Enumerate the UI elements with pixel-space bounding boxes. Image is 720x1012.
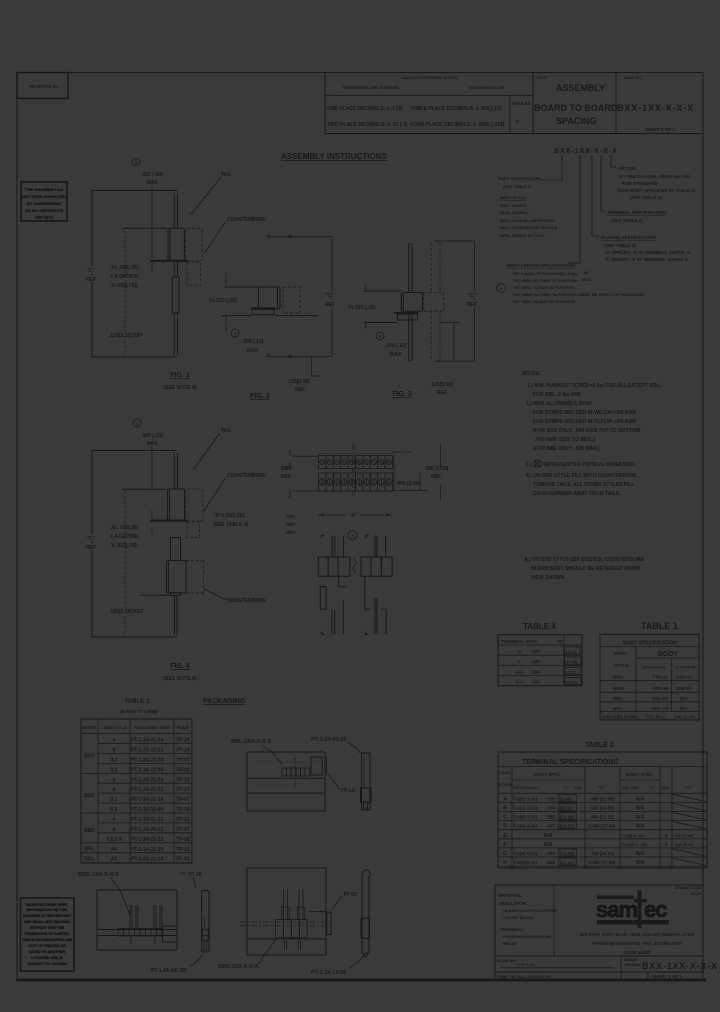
svg-text:MANUFACTURER SPEC: MANUFACTURER SPEC <box>26 903 68 907</box>
svg-text:THIS IS AN UNCONTROLLED: THIS IS AN UNCONTROLLED <box>22 938 72 942</box>
svg-text:REF: REF <box>431 474 441 480</box>
svg-text:'A'= TAILS FLUSH, LEAVE BLANK: 'A'= TAILS FLUSH, LEAVE BLANK <box>618 174 691 179</box>
svg-text:C: C <box>503 815 507 821</box>
svg-text:SAVED TO ANOTHER: SAVED TO ANOTHER <box>29 950 66 954</box>
svg-text:TP-12: TP-12 <box>341 788 355 794</box>
svg-text:PT-1-24-22-24: PT-1-24-22-24 <box>131 757 163 763</box>
svg-text:STYLE: STYLE <box>614 663 629 668</box>
svg-text:BODY SPEC.: BODY SPEC. <box>626 772 654 777</box>
svg-text:4: 4 <box>113 738 116 744</box>
svg-text:.440: .440 <box>531 659 540 664</box>
svg-text:BDL-: BDL- <box>613 706 624 711</box>
svg-text:"XX"=BDL: 02-MAX 36 POSITION: "XX"=BDL: 02-MAX 36 POSITION <box>512 299 575 304</box>
svg-text:T-2(R)6-X .055: T-2(R)6-X .055 <box>621 842 648 847</box>
svg-text:CODE 55322: CODE 55322 <box>624 950 651 955</box>
svg-text:.125[3.18]: .125[3.18] <box>287 379 310 385</box>
svg-text:BSL= SINGLE/LOW PROFILE: BSL= SINGLE/LOW PROFILE <box>500 218 556 223</box>
svg-text:BXX-1XX-X-X-X: BXX-1XX-X-X-X <box>642 961 718 971</box>
svg-text:THREE PLACE DECIMALS: ± .005 [: THREE PLACE DECIMALS: ± .005 [.13] <box>410 106 502 112</box>
svg-text:BBD-1XX-X-X-X: BBD-1XX-X-X-X <box>78 872 119 878</box>
svg-text:COPY IF PRINTED OR: COPY IF PRINTED OR <box>28 944 66 948</box>
svg-text:BRASS: BRASS <box>503 941 517 946</box>
svg-text:TTC+3-91: TTC+3-91 <box>516 962 535 967</box>
svg-text:FOUR PLACE DECIMALS: ± .0005 [: FOUR PLACE DECIMALS: ± .0005 [.013] <box>410 122 504 128</box>
svg-text:BSS-: BSS- <box>613 675 624 680</box>
svg-text:BXX-1XX-X-X-X: BXX-1XX-X-X-X <box>554 148 618 155</box>
svg-text:X± .010[.25]: X± .010[.25] <box>111 265 139 271</box>
svg-text:.125[3.18]: .125[3.18] <box>430 382 453 388</box>
svg-text:BDL: BDL <box>84 857 94 863</box>
svg-text:TERMINAL SPECIFICATIONS: TERMINAL SPECIFICATIONS <box>522 759 619 766</box>
svg-text:TOWARD TAILS. ALL OTHER STYLES: TOWARD TAILS. ALL OTHER STYLES FILL <box>533 482 634 488</box>
svg-text:BXX-1XX-X-X-X: BXX-1XX-X-X-X <box>617 103 694 113</box>
svg-text:PT-1-24-12-05: PT-1-24-12-05 <box>131 807 163 813</box>
svg-text:DRAWING IS PROPRIETARY: DRAWING IS PROPRIETARY <box>23 914 72 918</box>
svg-text:4.) ON BXD STYLE FILL WITH COU: 4.) ON BXD STYLE FILL WITH COUNTERBORE <box>526 473 637 479</box>
svg-text:SSH-XX: SSH-XX <box>676 675 693 680</box>
svg-text:PT-1-24-21-14: PT-1-24-21-14 <box>131 857 163 863</box>
svg-text:VIEW SHOWN.: VIEW SHOWN. <box>531 575 566 581</box>
svg-text:.098 [2.49]: .098 [2.49] <box>396 481 421 487</box>
svg-text:1.) MIN. PUSHOUT FORCE=5 lbs F: 1.) MIN. PUSHOUT FORCE=5 lbs FOR ALL EXC… <box>527 383 662 389</box>
svg-text:N/A: N/A <box>680 706 689 711</box>
svg-text:BY ENGINEERING: BY ENGINEERING <box>27 201 62 206</box>
svg-text:"C": "C" <box>326 293 335 299</box>
svg-text:[8.13]: [8.13] <box>566 649 577 654</box>
svg-text:"XX"= NOS. OF POSITIONS (.100): "XX"= NOS. OF POSITIONS (.100)= <box>512 271 578 276</box>
svg-text:PT-1-24-21-24: PT-1-24-21-24 <box>131 777 163 783</box>
svg-text:MAX: MAX <box>247 348 259 354</box>
svg-text:FOR STANDARD: FOR STANDARD <box>622 181 658 186</box>
svg-text:0,1: 0,1 <box>111 797 118 803</box>
svg-text:TAIL: TAIL <box>221 172 232 178</box>
svg-text:0,1: 0,1 <box>111 757 118 763</box>
svg-text:BBD: BBD <box>84 828 95 834</box>
svg-text:.320 [8.42]: .320 [8.42] <box>674 842 694 847</box>
svg-text:BRS: BRS <box>286 530 296 535</box>
svg-text:"B": "B" <box>557 639 565 644</box>
svg-text:GLASS FILLED POLYESTER: GLASS FILLED POLYESTER <box>503 908 557 913</box>
svg-text:T-1(X)-6-(X): T-1(X)-6-(X) <box>513 860 538 865</box>
svg-text:N/A: N/A <box>636 824 645 830</box>
svg-text:T-1(R)-4 .062: T-1(R)-4 .062 <box>621 833 646 838</box>
svg-text:PERMISSION OF SAMTEC: PERMISSION OF SAMTEC <box>25 932 70 936</box>
svg-text:PRINT NO. ALL AND 2-23-45: PRINT NO. ALL AND 2-23-45 <box>497 974 551 979</box>
svg-text:TP-08: TP-08 <box>176 807 190 813</box>
svg-text:.198 [5.03]: .198 [5.03] <box>424 466 449 472</box>
svg-text:(USE BODY SPECIFIED IN TABLE 1: (USE BODY SPECIFIED IN TABLE 1) <box>618 188 695 193</box>
svg-text:.005 [.13]: .005 [.13] <box>141 433 163 439</box>
svg-text:"C": "C" <box>87 536 96 542</box>
svg-text:STANDARD: STANDARD <box>643 665 665 670</box>
svg-text:ec: ec <box>644 897 667 922</box>
svg-text:.745 [21.31]: .745 [21.31] <box>590 851 615 856</box>
svg-text:REF: REF <box>325 302 335 308</box>
svg-text:BODY: BODY <box>614 651 627 656</box>
svg-text:DRAWN: DRAWN <box>624 958 638 962</box>
svg-text:T-1(X)-3-(X): T-1(X)-3-(X) <box>513 815 538 820</box>
svg-text:PT-1-24-12-05: PT-1-24-12-05 <box>131 767 163 773</box>
svg-text:REF: REF <box>86 545 96 551</box>
svg-text:N/A: N/A <box>544 842 553 848</box>
svg-text:[10.41]: [10.41] <box>565 680 578 685</box>
svg-text:PT-1-24-(06-33): PT-1-24-(06-33) <box>151 968 187 974</box>
svg-text:REF: REF <box>437 390 447 396</box>
svg-text:0,2: 0,2 <box>111 807 118 813</box>
svg-text:BRS= SINGLE IN STRIP: BRS= SINGLE IN STRIP <box>500 233 545 238</box>
svg-text:.320: .320 <box>531 649 540 654</box>
svg-text:(SEE TABLE 1): (SEE TABLE 1) <box>503 184 532 189</box>
svg-text:TABLE 2: TABLE 2 <box>585 742 614 749</box>
svg-text:BBL-1XX-X-X-X: BBL-1XX-X-X-X <box>231 739 271 745</box>
svg-text:TERMINAL SPECIFICATION: TERMINAL SPECIFICATION <box>607 210 666 215</box>
svg-text:COUNTERBORE: COUNTERBORE <box>227 598 267 604</box>
svg-text:MADE BY:: MADE BY: <box>497 958 516 963</box>
svg-text:.410: .410 <box>531 680 540 685</box>
svg-text:X±.010 [.25]: X±.010 [.25] <box>348 305 376 311</box>
svg-text:X±.010 [.25]: X±.010 [.25] <box>209 298 237 304</box>
svg-text:AND SHALL NOT BE USED: AND SHALL NOT BE USED <box>24 920 71 924</box>
svg-text:All: All <box>111 857 118 863</box>
svg-text:-2-A: -2-A <box>515 669 524 674</box>
svg-text:2.) MAX ALLOWABLE BOW:: 2.) MAX ALLOWABLE BOW: <box>526 401 593 407</box>
svg-text:BDL= DOUBLE/LOW PROFILE: BDL= DOUBLE/LOW PROFILE <box>500 225 558 230</box>
svg-text:N/A: N/A <box>636 851 645 857</box>
svg-text:-1: -1 <box>517 659 521 664</box>
svg-text:BODY LENGTH SPECIFICATION: BODY LENGTH SPECIFICATION <box>507 263 575 268</box>
svg-text:.460 [11.68]: .460 [11.68] <box>590 796 615 801</box>
svg-text:BSS= SINGLE: BSS= SINGLE <box>500 203 527 208</box>
svg-text:TP-24: TP-24 <box>176 738 190 744</box>
svg-text:3.): 3.) <box>526 462 532 468</box>
svg-text:COUNTERBORE: COUNTERBORE <box>227 473 267 479</box>
svg-text:"XX"=BSL: 02-MAX 32 POSITION: "XX"=BSL: 02-MAX 32 POSITION <box>512 285 574 290</box>
svg-text:.625: .625 <box>546 860 555 865</box>
svg-text:PLUG: PLUG <box>177 725 190 730</box>
svg-text:TABLE 1: TABLE 1 <box>641 621 678 631</box>
svg-text:PT-1-24-21-25: PT-1-24-21-25 <box>131 847 163 853</box>
svg-text:-2: -2 <box>517 649 521 654</box>
svg-text:BODY: BODY <box>83 725 96 730</box>
svg-text:BDS= DOUBLE: BDS= DOUBLE <box>500 210 529 215</box>
svg-text:.905 [21.31]: .905 [21.31] <box>590 815 615 820</box>
svg-text:PLATING SPECIFICATION: PLATING SPECIFICATION <box>601 235 656 240</box>
svg-text:[9.40]: [9.40] <box>560 796 572 801</box>
svg-text:PACKAGING: PACKAGING <box>203 698 246 705</box>
svg-text:TP-23: TP-23 <box>176 787 190 793</box>
svg-text:MAX: MAX <box>582 277 591 282</box>
svg-text:FIG.: FIG. <box>662 785 670 790</box>
svg-text:TP-03: TP-03 <box>343 892 357 898</box>
svg-text:DWG NO.: DWG NO. <box>624 75 642 80</box>
svg-text:.555: .555 <box>546 851 555 856</box>
svg-text:0,0,3,4: 0,0,3,4 <box>106 837 122 843</box>
svg-text:"C": "C" <box>649 785 656 790</box>
svg-text:G: G <box>503 851 507 857</box>
svg-text:"B"±.010[.25]: "B"±.010[.25] <box>213 513 244 519</box>
svg-text:PT-1-24-22-23: PT-1-24-22-23 <box>131 787 163 793</box>
svg-text:"C": "C" <box>87 268 96 274</box>
svg-text:(SEE TABLE 2): (SEE TABLE 2) <box>611 218 643 223</box>
svg-text:ORIGINAL: ORIGINAL <box>624 963 642 967</box>
svg-text:All: All <box>111 847 118 853</box>
svg-text:[11.18]: [11.18] <box>565 659 578 664</box>
svg-text:TERMINAL SPEC: TERMINAL SPEC <box>501 639 538 644</box>
svg-text:F: F <box>503 842 506 848</box>
svg-text:X± .010[.25]: X± .010[.25] <box>111 525 139 531</box>
svg-text:BSS: BSS <box>84 793 95 799</box>
svg-text:[21.31]: [21.31] <box>560 860 575 865</box>
svg-text:FIG. 3: FIG. 3 <box>392 391 412 398</box>
svg-text:OPTION:: OPTION: <box>618 166 637 171</box>
svg-text:FIG. 2: FIG. 2 <box>250 393 270 400</box>
svg-text:.300 [7.62]: .300 [7.62] <box>674 833 694 838</box>
svg-text:TP-08: TP-08 <box>176 767 190 773</box>
svg-text:FOR BBL: 2 lbs MIN.: FOR BBL: 2 lbs MIN. <box>533 392 582 398</box>
svg-text:.008 IN/IN SIDE TO SIDE.): .008 IN/IN SIDE TO SIDE.) <box>535 437 595 443</box>
svg-text:"C": "C" <box>685 785 693 790</box>
svg-text:PT-1-24-01-25: PT-1-24-01-25 <box>311 737 346 743</box>
svg-text:PT-1-24-26-22: PT-1-24-26-22 <box>131 827 163 833</box>
svg-text:N/A: N/A <box>636 796 645 802</box>
svg-text:PT-1-24-12-05: PT-1-24-12-05 <box>311 970 346 976</box>
svg-text:.125[3.18] REF: .125[3.18] REF <box>109 333 143 339</box>
svg-text:[7.37]: [7.37] <box>566 669 577 674</box>
svg-text:BOARD TO BOARD: BOARD TO BOARD <box>534 103 618 113</box>
svg-text:.335: .335 <box>546 806 555 811</box>
svg-text:MATERIAL:: MATERIAL: <box>498 893 523 898</box>
svg-text:HSC-XX: HSC-XX <box>651 706 668 711</box>
svg-text:T-1(X)-2-(X): T-1(X)-2-(X) <box>513 806 538 811</box>
svg-text:(FOR BHS ONLY: .004 IN/IN TOP: (FOR BHS ONLY: .004 IN/IN TOP TO BOTTOM, <box>533 428 642 434</box>
svg-text:TP-03: TP-03 <box>176 857 190 863</box>
svg-text:.290: .290 <box>531 669 540 674</box>
svg-text:INSULATOR:: INSULATOR: <box>500 901 528 906</box>
svg-text:PT-1-24-22-24: PT-1-24-22-24 <box>131 797 163 803</box>
svg-text:REVISION AL: REVISION AL <box>30 84 59 89</box>
svg-text:MAX: MAX <box>146 180 158 186</box>
svg-text:BRD: BRD <box>281 466 292 472</box>
svg-text:.005 [.13]: .005 [.13] <box>385 343 407 349</box>
svg-text:BODY SPEC.: BODY SPEC. <box>534 772 562 777</box>
svg-text:.025: .025 <box>286 514 295 519</box>
svg-text:-1-A: -1-A <box>515 680 524 685</box>
svg-text:TSS-32: TSS-32 <box>652 675 668 680</box>
svg-text:.370: .370 <box>546 796 555 801</box>
svg-text:.005 [.13]: .005 [.13] <box>242 339 264 345</box>
svg-text:(SEE NOTE 4): (SEE NOTE 4) <box>164 676 197 682</box>
svg-text:INFORMATION ON THIS: INFORMATION ON THIS <box>27 908 68 912</box>
svg-text:FIG. 4: FIG. 4 <box>170 663 190 670</box>
svg-text:(FOR BBL ONLY: .035 MAX.): (FOR BBL ONLY: .035 MAX.) <box>533 446 600 452</box>
svg-text:PT-1-24-23-22: PT-1-24-23-22 <box>131 837 163 843</box>
svg-text:(SEE TABLE 4): (SEE TABLE 4) <box>213 522 249 528</box>
svg-text:(4 POS TO 4 MIN): (4 POS TO 4 MIN) <box>121 709 158 714</box>
svg-text:(SEE TABLE 2): (SEE TABLE 2) <box>604 243 636 248</box>
svg-text:BBS-1XX-X-X-X: BBS-1XX-X-X-X <box>218 964 259 970</box>
svg-text:TP-03: TP-03 <box>176 817 190 823</box>
svg-text:BSL,BSL: BSL,BSL <box>622 785 640 790</box>
svg-text:.125[3.18] REF: .125[3.18] REF <box>109 609 143 615</box>
svg-text:LOCATION AND IS: LOCATION AND IS <box>31 956 63 960</box>
svg-text:TP-07: TP-07 <box>176 797 190 803</box>
svg-text:TP-08: TP-08 <box>176 837 190 843</box>
svg-text:±: ± <box>516 119 519 125</box>
svg-text:PHOSPHOR BRONZE ON: PHOSPHOR BRONZE ON <box>503 934 551 939</box>
svg-text:.625: .625 <box>546 824 555 829</box>
svg-text:(-A OPTION: (-A OPTION <box>111 274 139 280</box>
svg-text:BC-01: BC-01 <box>691 892 701 896</box>
svg-text:PHONE (812) 944-6733 FAX: 812: PHONE (812) 944-6733 FAX: 812 944-7147 <box>592 941 682 946</box>
svg-text:TOLERANCES ARE: TOLERANCES ARE <box>468 85 505 90</box>
svg-text:N/A: N/A <box>636 815 645 821</box>
svg-text:DRAWN/STD-08: DRAWN/STD-08 <box>675 886 701 890</box>
svg-text:T-1(X)-1-(X): T-1(X)-1-(X) <box>513 796 538 801</box>
svg-text:T-1(X)-5-(X): T-1(X)-5-(X) <box>513 851 538 856</box>
svg-text:BODY STYLE: BODY STYLE <box>500 195 526 200</box>
svg-text:BXB-G(PLATING): BXB-G(PLATING) <box>602 715 639 720</box>
svg-text:TP-38: TP-38 <box>188 872 202 878</box>
svg-text:(SEE TABLE 4): (SEE TABLE 4) <box>630 195 662 200</box>
svg-text:-F: SPECIFY -F IN TERMINAL SUF: -F: SPECIFY -F IN TERMINAL SUFFIX -F <box>604 257 689 262</box>
svg-text:COLOR: BLACK: COLOR: BLACK <box>503 915 534 920</box>
svg-text:B: B <box>503 806 507 812</box>
svg-text:TP-22: TP-22 <box>176 777 190 783</box>
svg-text:TP-12: TP-12 <box>176 847 190 853</box>
svg-text:PT-1-24-01-22: PT-1-24-01-22 <box>131 817 163 823</box>
svg-text:FIG.: FIG. <box>574 785 582 790</box>
svg-text:BODY SPECIFICATION: BODY SPECIFICATION <box>623 641 677 647</box>
svg-text:PACKAGING TUBE: PACKAGING TUBE <box>134 725 170 730</box>
svg-text:SPACING: SPACING <box>556 116 596 126</box>
svg-text:8: 8 <box>113 748 116 754</box>
svg-text:ASSEMBLY: ASSEMBLY <box>556 83 605 93</box>
svg-text:TP-07: TP-07 <box>176 827 190 833</box>
svg-text:SSL-XX: SSL-XX <box>652 696 668 701</box>
svg-text:BDL-: BDL- <box>613 696 624 701</box>
svg-text:.535 [14.05]: .535 [14.05] <box>590 806 615 811</box>
svg-text:FIG. 1: FIG. 1 <box>170 372 190 379</box>
svg-text:COUNTERBORE AWAY FROM TAILS: COUNTERBORE AWAY FROM TAILS <box>533 491 620 497</box>
svg-text:WITHOUT WRITTEN: WITHOUT WRITTEN <box>30 926 65 930</box>
svg-text:[14.10]: [14.10] <box>560 815 575 820</box>
svg-text:DIMENSIONS ARE IN INCHES: DIMENSIONS ARE IN INCHES <box>343 85 399 90</box>
svg-text:BDD-: BDD- <box>613 686 625 691</box>
svg-text:H: H <box>503 860 507 866</box>
svg-text:"A": "A" <box>349 513 358 519</box>
svg-text:A.) ON BXD STYLE (ZIP BODIES),: A.) ON BXD STYLE (ZIP BODIES), COUNTERBO… <box>524 557 645 563</box>
svg-text:N/A: N/A <box>636 860 645 866</box>
svg-text:TTS-36-G: TTS-36-G <box>645 715 666 720</box>
svg-text:TAIL: TAIL <box>221 428 232 434</box>
svg-text:TP-24: TP-24 <box>176 748 190 754</box>
svg-text:0,2: 0,2 <box>111 767 118 773</box>
svg-text:8: 8 <box>113 787 116 793</box>
svg-text:REF: REF <box>295 387 305 393</box>
svg-text:UNLESS OTHERWISE NOTED: UNLESS OTHERWISE NOTED <box>401 75 458 80</box>
svg-text:TP-07: TP-07 <box>176 757 190 763</box>
svg-text:[8.51]: [8.51] <box>560 806 572 811</box>
svg-text:.025 [.64]: .025 [.64] <box>141 172 163 178</box>
svg-text:D: D <box>503 824 507 830</box>
svg-text:FOR STRIPS MOLDED IN VALOX=.00: FOR STRIPS MOLDED IN VALOX=.008 IN/IN <box>533 410 637 416</box>
svg-text:1.065 [27.05]: 1.065 [27.05] <box>589 824 616 829</box>
svg-text:OFF SITE: OFF SITE <box>35 215 53 220</box>
svg-text:X-.020[.76]): X-.020[.76]) <box>111 283 138 289</box>
svg-text:ANGLES: ANGLES <box>512 101 531 106</box>
svg-text:[20.31]: [20.31] <box>560 824 575 829</box>
svg-text:"C": "C" <box>468 293 477 299</box>
svg-text:DO NO DISTRIBUTE: DO NO DISTRIBUTE <box>25 208 64 213</box>
svg-text:(-A OPTION: (-A OPTION <box>111 534 139 540</box>
svg-text:TITLE: TITLE <box>536 75 547 80</box>
svg-text:REPRESENTS A CRITICAL DIMENSIO: REPRESENTS A CRITICAL DIMENSION <box>542 462 635 468</box>
svg-text:(SEE NOTE 4): (SEE NOTE 4) <box>164 385 197 391</box>
svg-text:NOT BEEN APPROVED: NOT BEEN APPROVED <box>22 194 66 199</box>
svg-text:1.065 [27.05]: 1.065 [27.05] <box>589 860 616 865</box>
svg-text:sam: sam <box>596 897 637 922</box>
svg-text:TERMINAL:: TERMINAL: <box>500 927 525 932</box>
svg-text:4: 4 <box>113 777 116 783</box>
svg-text:NOTES:: NOTES: <box>522 371 541 377</box>
svg-text:[14.05]: [14.05] <box>560 851 575 856</box>
svg-text:A: A <box>503 796 507 802</box>
svg-text:THIS DRAWING HAS: THIS DRAWING HAS <box>24 187 63 192</box>
svg-text:COUNTERBORE: COUNTERBORE <box>227 217 267 223</box>
svg-text:REF: REF <box>281 474 291 480</box>
svg-text:SUBJECT TO CHANGE: SUBJECT TO CHANGE <box>27 962 67 966</box>
svg-text:REF: REF <box>86 277 96 283</box>
svg-text:4: 4 <box>113 817 116 823</box>
svg-text:BRL: BRL <box>84 847 94 853</box>
svg-text:PT-1-24-22-23: PT-1-24-22-23 <box>131 748 163 754</box>
svg-text:TABLE 3: TABLE 3 <box>125 699 150 705</box>
svg-text:8: 8 <box>113 827 116 833</box>
svg-text:X-.020[.76]): X-.020[.76]) <box>111 543 138 549</box>
svg-text:DSB-XX: DSB-XX <box>675 686 692 691</box>
svg-text:TABLE 4: TABLE 4 <box>523 622 556 631</box>
svg-text:N/A: N/A <box>636 806 645 812</box>
svg-text:REF: REF <box>467 302 477 308</box>
svg-text:IN DXB BODY SHOULD BE REVERSED: IN DXB BODY SHOULD BE REVERSED FROM <box>531 566 640 572</box>
svg-text:FOR STRIPS MOLDED IN ULTEM=.00: FOR STRIPS MOLDED IN ULTEM=.008 IN/IN <box>533 419 637 425</box>
svg-text:-G: SPECIFY -G IN TERMINAL SUF: -G: SPECIFY -G IN TERMINAL SUFFIX -G <box>604 250 691 255</box>
svg-text:"XX"=BDS: 02-THRU 36 POSITION: "XX"=BDS: 02-THRU 36 POSITION (MUST BE E… <box>512 292 644 297</box>
svg-text:"XX"=BSS: 02-THRU 32 POSITION: "XX"=BSS: 02-THRU 32 POSITION <box>512 278 577 283</box>
svg-text:SSG-G-XX: SSG-G-XX <box>673 715 695 720</box>
svg-text:MAX: MAX <box>390 352 402 358</box>
svg-text:PT-1-24-01-24: PT-1-24-01-24 <box>131 738 163 744</box>
svg-text:SHEET 1 OF 1: SHEET 1 OF 1 <box>645 127 676 132</box>
svg-text:36: 36 <box>584 270 589 275</box>
svg-text:BODY: BODY <box>658 651 679 658</box>
svg-text:N/A: N/A <box>544 833 553 839</box>
svg-text:SHEET 1 OF 1: SHEET 1 OF 1 <box>652 974 683 979</box>
svg-text:T-1(X)-4-(X): T-1(X)-4-(X) <box>513 824 538 829</box>
svg-text:STYLE: STYLE <box>499 782 512 787</box>
svg-text:BODY SPECIFICATION: BODY SPECIFICATION <box>498 176 541 181</box>
svg-text:REF: REF <box>286 522 295 527</box>
svg-text:.555: .555 <box>546 815 555 820</box>
svg-text:N/A: N/A <box>680 696 689 701</box>
svg-text:BHS: BHS <box>84 753 95 759</box>
svg-text:"C": "C" <box>598 785 606 790</box>
svg-text:LEAD: LEAD <box>500 770 511 775</box>
svg-text:ONE PLACE DECIMALS: ± .1 [3]: ONE PLACE DECIMALS: ± .1 [3] <box>327 106 403 112</box>
svg-text:TWO PLACE DECIMALS: ± .01 [.3]: TWO PLACE DECIMALS: ± .01 [.3] <box>327 122 408 128</box>
svg-text:520 PARK EAST BLVD. NEW ALBANY: 520 PARK EAST BLVD. NEW ALBANY, INDIANA … <box>580 932 695 937</box>
svg-text:BSS,BDS,G-S: BSS,BDS,G-S <box>513 785 539 790</box>
